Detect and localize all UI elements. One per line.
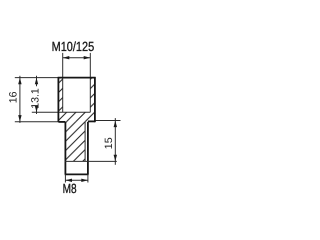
shoulder edge left: [58, 121, 65, 123]
arrow left of M10 dim: [63, 56, 70, 59]
thread end / 15 extension line: [65, 160, 117, 162]
arrow down of 15 dim: [114, 155, 117, 162]
dimension line M10/125: [63, 57, 91, 59]
hatch right wall band of sleeve: [90, 78, 95, 113]
dimension line 16: [19, 76, 21, 123]
arrow down of 13.1 dim: [35, 106, 38, 113]
svg-text:15: 15: [103, 137, 115, 149]
extension/bore line right M10: [89, 53, 91, 112]
M8 extension line right: [87, 174, 89, 182]
dimension line 15: [114, 118, 116, 165]
dimension line M8: [65, 179, 88, 181]
shank thread minor line: [84, 122, 86, 161]
arrow up of 16 dim: [18, 78, 21, 85]
shoulder extension line left for 16 dim: [15, 121, 59, 123]
sleeve outline top edge: [58, 77, 96, 79]
svg-text:13.1: 13.1: [30, 88, 42, 109]
arrow up of 15 dim: [114, 121, 117, 128]
shank outline right wall: [87, 122, 89, 174]
shoulder extension line right for 15 dim: [95, 120, 121, 122]
shank bottom edge: [65, 173, 89, 175]
dimension line 13.1 lower segment: [36, 106, 38, 115]
arrow down of 16 dim: [18, 115, 21, 122]
arrow right of M10 dim: [84, 56, 91, 59]
bore bottom line / 13.1 extension: [32, 111, 91, 113]
arrow up of 13.1 dim: [35, 78, 38, 85]
dimension line 13.1 upper segment: [36, 76, 38, 87]
sleeve outline left wall: [57, 77, 59, 122]
extension/bore line left M10: [62, 53, 64, 112]
hatch threaded shank section: [65, 122, 85, 161]
shank outline left wall: [64, 122, 66, 174]
shoulder edge right: [88, 120, 95, 122]
top extension line for 16 and 13.1 dims: [15, 77, 59, 79]
hatch solid bottom of sleeve: [58, 112, 95, 122]
M8 extension line left: [64, 174, 66, 182]
sleeve outline right wall: [94, 77, 96, 122]
hatch left wall band of sleeve: [58, 78, 62, 113]
svg-text:M10/125: M10/125: [52, 39, 95, 54]
svg-text:M8: M8: [63, 181, 77, 196]
svg-text:16: 16: [8, 91, 20, 103]
arrow right of M8 dim: [81, 179, 88, 182]
arrow left of M8 dim: [65, 179, 72, 182]
